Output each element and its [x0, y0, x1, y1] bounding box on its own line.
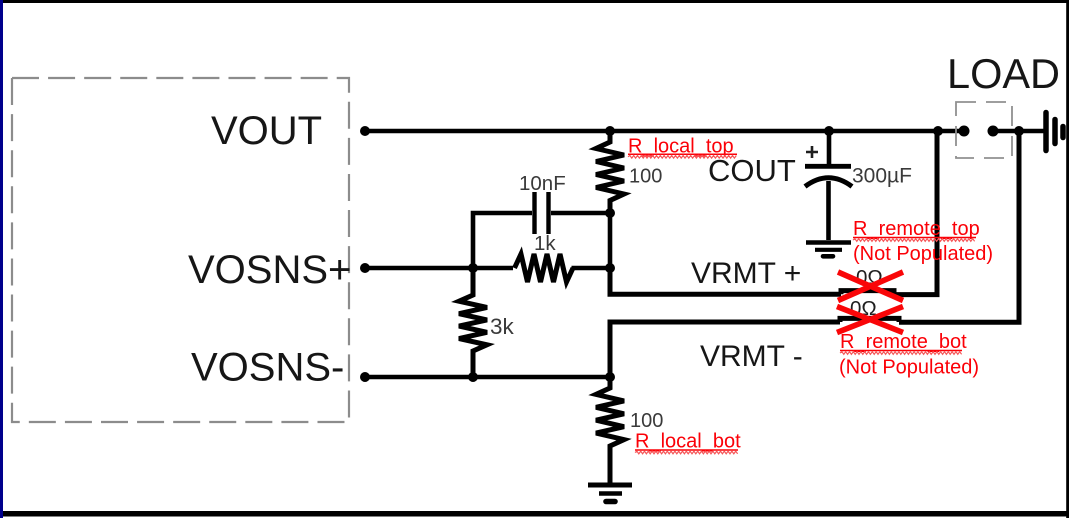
resistor R_remote_bot 0 ohm body	[840, 318, 899, 322]
label 10nF	[519, 172, 566, 195]
pin label VOSNS-	[191, 346, 344, 390]
svg-text:R_remote_bot: R_remote_bot	[840, 331, 967, 353]
node COUT top	[824, 126, 834, 136]
frame top border	[0, 0, 1069, 3]
svg-text:1k: 1k	[534, 232, 556, 255]
label COUT	[708, 153, 796, 188]
node 1k right	[605, 263, 615, 273]
label R_local_top (red)	[628, 136, 737, 159]
wire VRMT- left	[610, 322, 840, 377]
connector terminal left	[959, 126, 970, 137]
node R_local_top bottom	[605, 208, 615, 218]
wire VOSNS+ right	[572, 266, 611, 271]
node VOSNS- pin	[360, 372, 370, 382]
svg-text:300µF: 300µF	[852, 164, 912, 187]
svg-text:(Not Populated): (Not Populated)	[839, 357, 979, 379]
wire cap branch right	[551, 211, 610, 216]
regulator dashed box	[12, 78, 349, 422]
label 1k	[534, 232, 556, 255]
wire VOSNS-	[365, 375, 610, 380]
label R_local_top value 100	[629, 166, 662, 188]
pin label VOUT	[211, 109, 322, 153]
ground at COUT	[806, 243, 851, 257]
svg-text:COUT: COUT	[708, 153, 796, 188]
label 0 ohm bottom	[850, 297, 877, 320]
label (Not Populated) bottom (red)	[839, 357, 979, 379]
red X over R_remote_top	[838, 272, 903, 301]
node VOSNS+ pin	[360, 263, 370, 273]
svg-text:100: 100	[629, 166, 662, 188]
frame right border	[1066, 0, 1069, 518]
node 3k top	[468, 263, 478, 273]
label 0 ohm top	[856, 266, 883, 289]
svg-text:LOAD: LOAD	[947, 50, 1060, 97]
pin label VOSNS+	[188, 248, 351, 292]
node R_local_top top	[605, 126, 615, 136]
wire VOSNS+ left	[365, 266, 513, 271]
resistor R 1k	[515, 254, 574, 282]
resistor R 3k	[459, 268, 487, 377]
svg-text:VOSNS+: VOSNS+	[188, 248, 351, 292]
wire VRMT- right up to LOAD return	[899, 131, 1019, 322]
COUT plus sign	[806, 146, 818, 158]
label VRMT -	[700, 340, 803, 373]
wire VRMT+ left	[610, 268, 841, 294]
node R_remote_top top	[933, 126, 943, 136]
wire LOAD to ground	[993, 129, 1044, 134]
wire cap node to 1k node	[608, 213, 613, 268]
frame left border	[0, 0, 3, 518]
svg-text:R_remote_top: R_remote_top	[853, 218, 980, 240]
LOAD dashed box	[956, 102, 1012, 158]
red X over R_remote_bot	[837, 307, 903, 333]
label R_local_bot (red)	[635, 431, 741, 454]
label (Not Populated) top (red)	[853, 243, 993, 265]
svg-text:100: 100	[630, 410, 663, 432]
resistor R_remote_top 0 ohm body	[841, 291, 894, 295]
capacitor COUT	[805, 131, 852, 240]
node 3k bottom	[468, 372, 478, 382]
wire VRMT+ right up to VOUT rail	[894, 131, 937, 295]
ground at R_local_bot	[588, 485, 632, 502]
connector terminal right	[988, 126, 999, 137]
resistor R_local_top	[596, 131, 624, 213]
svg-text:VOUT: VOUT	[211, 109, 322, 153]
svg-text:3k: 3k	[490, 314, 515, 339]
capacitor C 10nF	[535, 192, 549, 234]
node R_local_bot top	[605, 372, 615, 382]
svg-text:VOSNS-: VOSNS-	[191, 346, 344, 390]
ground at LOAD (rotated right)	[1046, 113, 1063, 151]
resistor R_local_bot	[596, 377, 624, 485]
svg-text:(Not Populated): (Not Populated)	[853, 243, 993, 265]
LOAD label	[947, 50, 1060, 97]
label R_local_bot value 100	[630, 410, 663, 432]
label R_remote_bot (red)	[840, 331, 967, 354]
node LOAD down	[1014, 126, 1024, 136]
frame bottom border	[0, 511, 1069, 517]
wire VOUT rail	[365, 129, 964, 134]
svg-text:R_local_bot: R_local_bot	[635, 431, 741, 453]
node VOUT pin	[360, 126, 370, 136]
label R_remote_top (red)	[853, 218, 980, 241]
svg-text:VRMT -: VRMT -	[700, 340, 803, 373]
label VRMT +	[691, 257, 801, 290]
label 300uF	[852, 164, 912, 187]
wire cap branch left	[473, 213, 532, 268]
label 3k	[490, 314, 515, 339]
svg-text:10nF: 10nF	[519, 172, 566, 195]
svg-text:VRMT +: VRMT +	[691, 257, 801, 290]
